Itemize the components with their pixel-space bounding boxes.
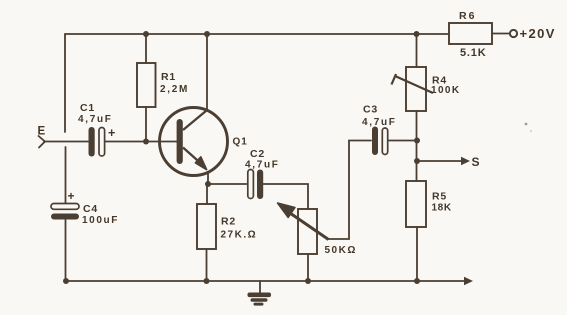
svg-text:E: E <box>38 126 46 138</box>
wire 50K pot bottom <box>307 254 309 281</box>
node bottom rail left corner <box>63 278 69 284</box>
capacitor C1 <box>89 127 105 157</box>
wire C2 to 50K pot top <box>263 184 308 209</box>
svg-text:+: + <box>108 126 115 140</box>
svg-text:C1: C1 <box>80 102 95 114</box>
wire C1 to Q1 base <box>105 141 177 143</box>
svg-text:S: S <box>472 155 480 169</box>
wire R6 right to +20V terminal <box>492 33 509 35</box>
wire output S <box>417 160 463 162</box>
svg-text:C2: C2 <box>250 148 265 160</box>
resistor R5 <box>406 181 426 227</box>
wire bottom rail <box>66 280 466 282</box>
capacitor C2 <box>248 170 263 200</box>
wire 50K wiper to C3 <box>328 141 371 240</box>
svg-text:R1: R1 <box>161 71 176 83</box>
node top rail / collector <box>204 31 210 37</box>
svg-text:50KΩ: 50KΩ <box>325 245 357 256</box>
svg-text:4,7uF: 4,7uF <box>78 114 113 125</box>
wire C4 bottom plate to bottom rail <box>65 220 67 281</box>
wire R1 bottom to base node <box>145 107 147 142</box>
wire left vertical lower (crossing to C4 top plate) <box>65 147 67 203</box>
wire R2 bottom <box>206 249 208 281</box>
node base / R1 <box>143 139 149 145</box>
wire Q1 emitter down to node <box>207 172 209 184</box>
svg-text:4,7uF: 4,7uF <box>245 160 280 171</box>
node top rail / R1 <box>143 31 149 37</box>
wire left vertical upper (top rail to E-line crossing) <box>64 34 66 132</box>
wire R5 bottom <box>416 227 418 281</box>
potentiometer R4 <box>392 67 434 111</box>
svg-text:4,7uF: 4,7uF <box>362 117 397 128</box>
resistor R1 <box>137 63 156 107</box>
node top rail / R4 R6 <box>414 31 420 37</box>
potentiometer 50K <box>278 203 329 254</box>
wire C3 to node A <box>388 140 417 142</box>
wire top rail <box>65 33 449 35</box>
svg-text:18K: 18K <box>432 203 452 214</box>
node bottom rail / R2 <box>204 278 210 284</box>
svg-text:R6: R6 <box>459 10 476 22</box>
svg-text:100K: 100K <box>431 85 461 96</box>
bottom rail arrowhead <box>464 277 473 285</box>
wire ground stem <box>259 281 261 293</box>
node bottom rail / R5 <box>414 278 420 284</box>
svg-text:C4: C4 <box>83 203 98 215</box>
node S branch <box>414 158 420 164</box>
node C3 / R4 (node A) <box>414 138 420 144</box>
wire R1 top <box>145 34 147 63</box>
wire Q1 collector to top rail <box>206 34 208 110</box>
svg-text:+: + <box>68 189 75 203</box>
svg-text:R5: R5 <box>432 191 447 203</box>
wire R2 top <box>206 184 208 204</box>
output S arrowhead <box>461 157 470 165</box>
svg-text:Q1: Q1 <box>233 137 248 148</box>
node emitter <box>205 181 211 187</box>
wire E input to C1 <box>44 141 88 143</box>
transistor Q1 <box>160 108 228 176</box>
resistor R2 <box>197 204 216 249</box>
wire R4 top to rail <box>416 34 418 67</box>
svg-text:27K.Ω: 27K.Ω <box>221 230 258 241</box>
wire emitter node to C2 <box>208 183 247 185</box>
terminal +20V circle <box>510 30 517 37</box>
svg-text:100uF: 100uF <box>82 215 119 226</box>
svg-text:5.1K: 5.1K <box>460 47 486 59</box>
svg-text:2,2M: 2,2M <box>160 84 189 95</box>
wire R4 bottom through node A to R5 <box>416 111 418 181</box>
svg-text:C3: C3 <box>363 104 378 116</box>
svg-text:+20V: +20V <box>520 26 556 41</box>
speck below <box>530 130 532 132</box>
capacitor C4 <box>51 204 79 220</box>
node bottom rail / pot <box>305 278 311 284</box>
resistor R6 <box>449 23 492 44</box>
ground <box>248 293 272 306</box>
speck top right <box>525 123 528 126</box>
capacitor C3 <box>372 127 388 156</box>
input terminal E arrowhead <box>39 136 46 148</box>
svg-text:R2: R2 <box>221 216 236 228</box>
